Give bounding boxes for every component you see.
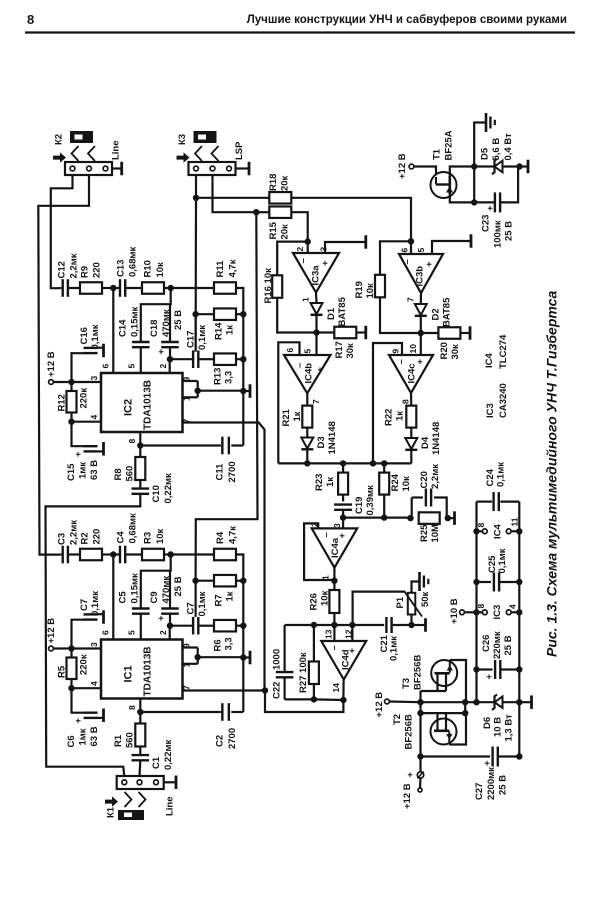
resistor R14 1к: [214, 308, 236, 320]
svg-text:0,1мк: 0,1мк: [197, 591, 208, 616]
svg-text:R15: R15: [268, 221, 279, 239]
T2 gate lead with arrow: [448, 732, 450, 745]
svg-text:TDA1013B: TDA1013B: [143, 646, 154, 696]
op-amp IC4d: [321, 641, 366, 680]
wire D6 node to ground bar: [519, 701, 531, 703]
svg-text:C10: C10: [151, 485, 162, 502]
wire node up to C7: [72, 620, 85, 649]
resistor R18: [269, 192, 291, 204]
svg-text:C24: C24: [485, 468, 496, 486]
svg-text:4,7к: 4,7к: [227, 526, 238, 544]
svg-text:D2: D2: [430, 308, 441, 320]
svg-text:560: 560: [124, 732, 135, 748]
svg-text:BF25A: BF25A: [443, 130, 454, 160]
wire D6 row to zener: [477, 701, 494, 703]
P1 wiper arrow: [404, 591, 422, 617]
svg-text:C18: C18: [149, 320, 160, 337]
svg-text:2: 2: [295, 247, 305, 252]
wire feedback node down to C7: [195, 581, 197, 617]
svg-text:+12 В: +12 В: [397, 153, 408, 179]
svg-text:7: 7: [406, 297, 416, 302]
wire IC2 pin9/1 to ground column: [198, 390, 244, 392]
capacitor C11 2700: [221, 437, 223, 455]
svg-text:Line: Line: [110, 140, 121, 160]
node rail / pin2 branch: [168, 285, 174, 291]
node K-feedback / R14 row: [192, 311, 198, 317]
svg-text:3: 3: [332, 523, 342, 528]
wire D1 node to R17: [317, 331, 335, 333]
svg-text:BF256B: BF256B: [403, 714, 414, 750]
IC IC2 TDA1013B body: [101, 373, 183, 432]
ground bar at R17: [364, 326, 367, 340]
ground bar right of IC2: [249, 384, 252, 398]
svg-text:25 В: 25 В: [503, 221, 514, 241]
svg-text:IC3: IC3: [485, 403, 496, 418]
diode D4 1N4148: [405, 438, 417, 449]
svg-text:IC4a: IC4a: [330, 537, 341, 558]
node C25 right: [516, 579, 522, 585]
terminal pin8 IC3: [482, 610, 487, 615]
svg-text:D1: D1: [326, 307, 337, 320]
op-amp IC3a: [293, 253, 339, 293]
svg-text:63 В: 63 В: [89, 460, 100, 480]
wire IC3a pin2 stub: [307, 242, 309, 253]
op-amp IC4b: [284, 355, 331, 393]
svg-text:IC4: IC4: [484, 353, 495, 369]
wire K1 pin3 to ground: [164, 781, 176, 783]
wire IC4d output U-loop to IC1 pin7: [265, 691, 343, 713]
svg-text:+: +: [156, 349, 167, 355]
svg-text:–: –: [396, 359, 407, 364]
svg-text:0,22мк: 0,22мк: [163, 473, 174, 504]
svg-text:3,3: 3,3: [223, 371, 234, 384]
vertical link T-block right: [464, 702, 466, 713]
wire IC3b pin5 to ground: [432, 241, 471, 254]
ground symbol (3 bars) at P1: [418, 572, 421, 591]
wire rail node down to C23 row: [473, 167, 475, 203]
svg-text:D4: D4: [420, 436, 431, 449]
svg-text:1мк: 1мк: [77, 462, 88, 479]
svg-text:LSP: LSP: [234, 141, 245, 160]
svg-text:0,1мк: 0,1мк: [388, 636, 399, 661]
row gate link lower: [421, 712, 466, 714]
wire IC2 pin9: [183, 380, 198, 382]
svg-text:C13: C13: [115, 260, 126, 277]
svg-text:C20: C20: [419, 471, 430, 488]
terminal +10 V: [460, 610, 465, 615]
node K3 pin1 / R18: [193, 195, 199, 201]
svg-text:Лучшие конструкции УНЧ и сабву: Лучшие конструкции УНЧ и сабвуферов свои…: [247, 14, 567, 26]
capacitor C2 2700: [221, 703, 223, 721]
wire IC2 pin9-1 link: [197, 381, 199, 397]
node IC2 pin9/1: [195, 388, 201, 394]
svg-text:9: 9: [391, 349, 401, 354]
wire C27 right to column: [498, 755, 520, 757]
T2 lead b: [445, 713, 447, 731]
terminal +12 V (bottom, slashed): [417, 772, 423, 778]
diode D3 1N4148: [301, 438, 313, 449]
svg-text:1к: 1к: [394, 411, 405, 421]
svg-text:К2: К2: [53, 134, 64, 145]
svg-text:4: 4: [508, 604, 518, 609]
svg-text:3: 3: [89, 642, 99, 647]
T-block left vertical: [419, 691, 421, 757]
node K-feedback / R7 row: [192, 578, 198, 584]
node R15 left: [253, 209, 259, 215]
wire K3 pin1 node down to R14/C17 node: [195, 198, 198, 352]
svg-text:25 В: 25 В: [503, 635, 514, 655]
svg-text:0,1мк: 0,1мк: [495, 462, 506, 487]
wire D5 to rail end node: [503, 165, 520, 167]
wire P1 bottom stub: [410, 615, 412, 626]
wire R18 rail left segment: [196, 197, 270, 199]
svg-text:К3: К3: [177, 134, 188, 145]
wire line-X speaker sense to channel1 feedback node: [196, 212, 258, 581]
wire pin2 stub: [169, 626, 171, 640]
svg-text:R1: R1: [113, 734, 124, 747]
node R23 top: [340, 460, 346, 466]
potentiometer P1 body: [408, 593, 416, 615]
svg-text:220к: 220к: [78, 654, 89, 675]
capacitor C22 1000: [276, 671, 294, 673]
svg-text:C26: C26: [481, 635, 492, 652]
node ground column: [240, 388, 246, 394]
K2 arrow icon: [53, 152, 66, 162]
supply box top right segment: [500, 501, 519, 503]
wire node to C7: [170, 625, 193, 627]
svg-text:R16 10к: R16 10к: [263, 268, 274, 304]
svg-text:25 В: 25 В: [497, 775, 508, 795]
wire IC3a pin3 to ground: [325, 242, 366, 253]
terminal +12 V (mid): [385, 699, 390, 704]
resistor R26 10к: [329, 590, 339, 613]
svg-text:C4: C4: [115, 531, 126, 544]
T1 channel bar: [448, 176, 451, 194]
capacitor C14 0,15мк: [132, 341, 150, 343]
svg-text:10 В: 10 В: [492, 717, 503, 737]
resistor R24 10к: [379, 473, 389, 495]
wire R12 top stub (R5): [70, 649, 72, 658]
node D5 right: [516, 163, 522, 169]
wire P1 left feed: [353, 592, 404, 625]
supply box right edge: [518, 502, 520, 757]
svg-text:C11: C11: [214, 463, 225, 481]
svg-text:0,1мк: 0,1мк: [497, 548, 508, 573]
svg-text:1: 1: [321, 575, 331, 580]
wire R15 left stub: [256, 211, 269, 213]
wire node down to C6: [72, 688, 85, 713]
node IC3 row right: [516, 609, 522, 615]
pin 8 wire (IC2): [139, 432, 141, 446]
svg-text:C1: C1: [151, 756, 162, 769]
svg-text:0,15мк: 0,15мк: [129, 306, 140, 337]
wire pin11 to right edge (IC4): [511, 530, 519, 532]
svg-text:12: 12: [344, 629, 354, 639]
svg-text:1к: 1к: [224, 591, 235, 601]
wire pin2-branch down-left: [141, 555, 171, 609]
supply box left edge: [475, 502, 477, 703]
node IC1 pin7: [262, 687, 268, 693]
wire pin2-branch down-left: [141, 288, 171, 342]
connector K2 switch contact a: [72, 146, 79, 161]
resistor R3 10к: [142, 549, 164, 561]
wire IC4b pin5 stub: [315, 333, 317, 356]
node IC3b pin6: [408, 238, 414, 244]
svg-text:R26: R26: [308, 593, 319, 610]
svg-text:5: 5: [303, 349, 313, 354]
svg-text:R17: R17: [334, 341, 345, 358]
svg-text:7: 7: [311, 399, 321, 404]
wire C2 right to feedback column: [231, 711, 243, 713]
wire pin12 node to C21: [352, 624, 384, 626]
svg-text:1N4148: 1N4148: [327, 421, 338, 454]
ground bar at D6 row: [530, 695, 533, 709]
svg-text:+: +: [415, 359, 426, 365]
wire C19 to node: [342, 510, 344, 517]
wire IC1 pin1: [183, 663, 198, 665]
resistor R4 4,7к: [214, 549, 236, 561]
svg-text:R4: R4: [215, 531, 226, 544]
capacitor C7 0,1мк: [84, 613, 98, 615]
node C26 right: [516, 666, 522, 672]
wire C25 right: [499, 581, 519, 583]
node T-block left top: [417, 699, 423, 705]
svg-text:BAT85: BAT85: [441, 297, 452, 327]
capacitor C21 0,1мк: [385, 617, 387, 633]
connector K3 switch insert (black): [194, 131, 217, 143]
svg-text:IC1: IC1: [122, 665, 134, 682]
svg-text:0,15мк: 0,15мк: [129, 573, 140, 604]
svg-text:2,2мк: 2,2мк: [430, 464, 441, 489]
resistor R21 1к: [302, 406, 312, 428]
wire IC1 pin9/1 to ground column: [198, 656, 244, 658]
wire D6 row left: [421, 701, 477, 703]
svg-text:R21: R21: [281, 408, 292, 426]
wire +12V to T1 gate: [414, 167, 436, 178]
svg-text:63 В: 63 В: [89, 726, 100, 746]
svg-text:13: 13: [324, 629, 334, 639]
ground bar at K2: [120, 162, 123, 176]
resistor R2 220: [80, 549, 102, 561]
T2 lead a: [436, 713, 438, 731]
svg-text:+: +: [315, 367, 326, 373]
wire C17 to R13: [198, 358, 214, 360]
wire R22 to D4: [410, 428, 412, 438]
transistor T2 BF256B: [431, 719, 457, 745]
node P1 bottom: [408, 622, 414, 628]
wire rail to R11: [171, 287, 214, 289]
feedback column to C2: [242, 658, 244, 713]
diode D1 BAT85: [311, 303, 323, 314]
svg-text:5,6 В: 5,6 В: [491, 138, 502, 161]
resistor R9 220: [80, 282, 102, 294]
svg-text:IC3a: IC3a: [310, 265, 321, 286]
wire IC4d output left segment: [314, 698, 344, 701]
resistor R25 10M: [419, 512, 440, 524]
capacitor C6 1мк: [84, 712, 98, 714]
terminal +12 V (top): [409, 164, 414, 169]
wire node up to C16: [72, 353, 85, 382]
svg-text:10к: 10к: [155, 262, 166, 278]
svg-text:T3: T3: [401, 678, 412, 689]
svg-text:C14: C14: [117, 319, 128, 337]
svg-text:D3: D3: [316, 436, 327, 448]
wire feedback node to R14: [196, 313, 214, 315]
wire C27 row: [421, 755, 491, 757]
svg-text:IC4: IC4: [492, 524, 503, 540]
svg-text:0,22мк: 0,22мк: [163, 739, 174, 770]
node IC4d output: [340, 697, 346, 703]
wire IC4c output stub: [410, 393, 412, 406]
wire integrator top row: [314, 624, 353, 626]
svg-text:2: 2: [310, 522, 320, 527]
K3 arrow icon: [177, 152, 190, 162]
wire R6 right stub: [236, 625, 243, 627]
wire IC1 pin7: [183, 689, 266, 691]
pin 6 wire (IC1): [112, 555, 114, 640]
node R25 right: [445, 515, 451, 521]
svg-text:30к: 30к: [345, 343, 356, 359]
ground symbol (3 bars) top right: [485, 113, 488, 132]
svg-text:C2: C2: [214, 735, 225, 747]
wire R24 top stub: [383, 463, 385, 472]
C20 loop top right segment: [434, 498, 447, 519]
wire C26 right: [501, 668, 519, 670]
wire C23 right up to D5 node: [500, 167, 518, 203]
node D2 / IC4c pin10 / R20: [418, 330, 424, 336]
C22 loop left upper: [284, 625, 286, 671]
resistor R15: [269, 206, 291, 218]
svg-text:0,1мк: 0,1мк: [90, 591, 101, 616]
wire IC3b output stub: [420, 293, 422, 304]
node D6 right: [516, 699, 522, 705]
svg-text:0,1мк: 0,1мк: [197, 325, 208, 350]
K1 arrow icon: [105, 796, 118, 806]
wire D6 to right column: [503, 701, 520, 703]
wire K3 pin1 down to R18 node: [195, 175, 197, 198]
svg-text:–: –: [321, 532, 332, 537]
svg-text:4: 4: [89, 681, 99, 686]
svg-text:8: 8: [401, 399, 411, 404]
svg-text:К1: К1: [105, 806, 116, 818]
node D3 / bottom rail: [304, 460, 310, 466]
node R14 right: [240, 311, 246, 317]
node R7 right: [240, 578, 246, 584]
wire R27 top stub: [313, 625, 315, 662]
svg-text:R3: R3: [142, 532, 153, 544]
ground bar at C6: [102, 709, 105, 723]
wire pin12 stub: [351, 625, 353, 641]
ground bar at K3: [248, 162, 251, 176]
svg-text:R9: R9: [79, 266, 90, 278]
C20 loop top left segment: [412, 496, 423, 498]
resistor R27 100к: [309, 662, 319, 685]
row T3 source: [421, 690, 447, 692]
svg-text:C7: C7: [79, 599, 90, 611]
feedback column to C11: [242, 391, 244, 446]
svg-text:+12 В: +12 В: [46, 351, 57, 377]
svg-text:C16: C16: [79, 327, 90, 344]
svg-text:Line: Line: [164, 796, 175, 816]
ground bar at rail end: [527, 160, 530, 174]
wire K3 pin3 to ground: [236, 167, 250, 169]
ground bar at IC3a pin3: [364, 235, 367, 249]
pin 8 wire (IC1): [139, 699, 141, 713]
T3 gate loop to lower row: [450, 660, 466, 702]
capacitor C16 0,1мк: [84, 347, 98, 349]
node R12 bottom (R5): [68, 685, 74, 691]
svg-text:R22: R22: [383, 409, 394, 426]
capacitor C23 100мк: [494, 192, 496, 212]
wire C18 top: [169, 304, 171, 341]
node R24 top: [381, 460, 387, 466]
wire C10 to K1 (long left feedback): [46, 494, 141, 776]
terminal pin11 IC4: [506, 529, 511, 534]
svg-text:R23: R23: [314, 474, 325, 491]
terminal pin8 IC4: [482, 529, 487, 534]
svg-text:–: –: [298, 258, 309, 263]
wire C26 left: [477, 668, 493, 670]
wire C9 bottom to pin2 node: [169, 614, 171, 626]
node R6 right: [240, 623, 246, 629]
wire C11 right to feedback column: [231, 444, 243, 446]
svg-text:3: 3: [89, 376, 99, 381]
wire C14 to pin5: [140, 348, 142, 373]
wire C7 to ground bar: [97, 613, 104, 615]
bottom rail wire (detector): [278, 462, 411, 464]
ground bar at K1: [175, 776, 178, 790]
svg-text:4,7к: 4,7к: [227, 259, 238, 277]
wire R4 right to feedback column: [236, 555, 243, 581]
node R25 left: [407, 515, 413, 521]
connector K3 switch contact a: [195, 146, 202, 161]
wire IC4b output stub: [306, 393, 308, 405]
T2 gate loop to upper row: [449, 713, 466, 744]
capacitor C20 2,2мк: [425, 489, 427, 507]
capacitor C10 0,22мк: [132, 487, 150, 489]
node pin2 / C17 row: [167, 356, 173, 362]
resistor R23 1к: [338, 473, 348, 495]
svg-text:470мк: 470мк: [161, 576, 172, 604]
svg-text:10к: 10к: [365, 283, 376, 299]
capacitor C7 0,1мк: [192, 617, 194, 635]
connector K1 pin circles: [122, 780, 127, 785]
wire C4 to R3: [125, 553, 142, 555]
svg-text:1к: 1к: [224, 325, 235, 335]
ground bar right of IC1: [249, 651, 252, 665]
svg-text:+12 В: +12 В: [374, 692, 385, 718]
connector K1 body: [117, 776, 164, 789]
svg-text:220: 220: [91, 529, 102, 545]
svg-text:TDA1013B: TDA1013B: [143, 380, 154, 430]
svg-text:6: 6: [285, 348, 295, 353]
terminal +12 V (IC1): [49, 646, 54, 651]
ground bar at C16: [102, 344, 105, 358]
svg-text:C19: C19: [354, 497, 365, 514]
ground bar at IC3b pin5: [470, 234, 473, 248]
resistor R16: [272, 275, 282, 298]
wire C1 down to K1 middle pin: [138, 761, 141, 776]
wire input rail left (C3): [60, 553, 63, 555]
connector K3 body: [189, 162, 236, 175]
wire R7 right stub: [236, 580, 243, 582]
svg-text:D6: D6: [482, 717, 493, 729]
svg-text:0,68мк: 0,68мк: [127, 246, 138, 277]
wire feedback node to R7: [196, 580, 214, 582]
capacitor C4: [119, 546, 121, 564]
wire C5 to pin5: [140, 614, 142, 639]
wire +12V mid to T-block: [389, 700, 420, 703]
